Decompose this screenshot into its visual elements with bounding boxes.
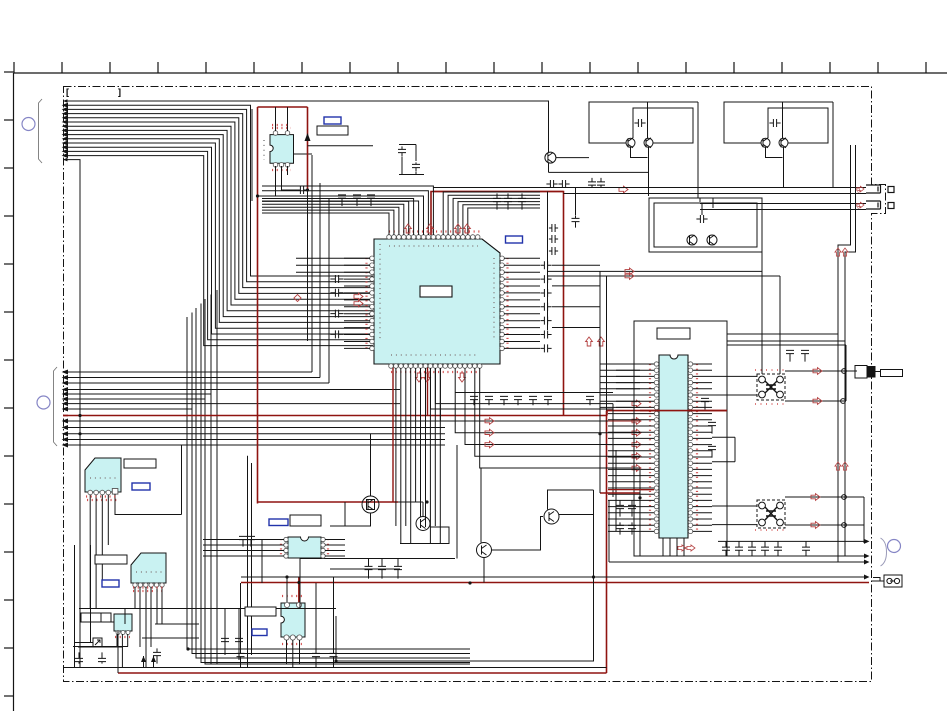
rows above QFP to red vertical (262, 185, 433, 187)
photo sensor box (93, 638, 102, 647)
transistor Q606 (707, 235, 717, 245)
transistor Q602 (644, 138, 653, 148)
transistor Q605 (687, 235, 697, 245)
vertical balun2 out (863, 497, 865, 543)
IC301 top pin wires going up-right (443, 192, 540, 235)
IC301 right pins (500, 256, 505, 351)
row balun2 out B (785, 524, 864, 526)
red up arrows x589 x601 (586, 337, 593, 346)
row above balun caps (727, 344, 846, 346)
wires Q202 emitter (400, 527, 449, 544)
red net vertical below QFP (392, 366, 394, 502)
transistor Q607 (545, 152, 556, 163)
long verticals right x838 x845 (838, 145, 851, 562)
IC501 part label box (657, 328, 690, 339)
IC501 right pins (688, 362, 692, 534)
black arrow up on x307 (305, 133, 311, 141)
diode marks bottom (141, 656, 156, 662)
ruler top (14, 72, 947, 74)
IC104 wires (116, 634, 118, 647)
QFP IC301 body (374, 239, 500, 364)
IC501 left stubs (608, 364, 654, 531)
IC701 top wires (286, 577, 288, 602)
bus fan last wire down left side (63, 160, 80, 668)
IC501 shield box (634, 321, 727, 556)
wire IC201 right vertical (307, 190, 309, 341)
IC202 labels (290, 515, 321, 526)
IC301 top pins (387, 235, 480, 240)
shield box TR2 inner (768, 108, 828, 143)
left input bus rows (63, 370, 445, 447)
IC501 body (659, 355, 688, 538)
caps hanging y568 (365, 558, 373, 578)
caps x552 x564 (546, 180, 557, 188)
verticals above left bus (311, 155, 313, 372)
red net row through IC501 (607, 410, 727, 412)
caps on IC202 left rows (239, 536, 247, 546)
red arrows above QFP (405, 224, 412, 233)
wire IC201 to arrow node (287, 166, 289, 175)
IC301 bottom pins (389, 364, 482, 369)
IC301 top pin wires up then left (262, 186, 433, 235)
caps column far right mid (616, 500, 624, 516)
IC102 pins (88, 490, 93, 495)
IC103 pin wires down (134, 587, 136, 609)
IC301 chamfer line (482, 239, 500, 253)
red net stub left bus (63, 415, 68, 417)
row pair y272 y276 verticals down (761, 252, 763, 374)
margin note circle A (22, 118, 35, 131)
brace C (881, 538, 887, 566)
vertical bus drop to bottom rail (187, 290, 470, 664)
svg-text:]: ] (118, 87, 121, 97)
capacitor TR3 (696, 215, 707, 223)
red net stub at IC701 (298, 577, 300, 603)
IC301 pin name text bands (389, 245, 478, 247)
IC103 pin speckle (133, 590, 164, 592)
caps row below IC501 (722, 541, 730, 556)
caps row under QFP (470, 396, 478, 405)
capacitors on IC301 right rows (540, 261, 551, 269)
IC201 bottom wires (258, 166, 276, 196)
vertical x547 decoupling column (547, 192, 549, 331)
shield box TR3 outer (649, 198, 762, 252)
IC301 right pin rows (504, 258, 540, 348)
shield box TR2 outer (724, 102, 833, 143)
wires Q203 to Q204 (492, 517, 543, 551)
wire sensor row (73, 646, 128, 648)
row above caps under QFP (455, 392, 613, 394)
IC301 pin number text bands (389, 230, 480, 232)
red net vertical main (257, 107, 259, 504)
IC202 pin speckle (280, 539, 282, 557)
caps below Q607 (588, 178, 596, 187)
IC501 bottom pin wires (662, 538, 664, 556)
red arrows at IC301 left (354, 293, 363, 300)
IC301 left pins (370, 256, 375, 351)
row balun2 out A (785, 496, 864, 498)
row from x307 right (308, 145, 374, 147)
IC201 value label box (317, 126, 348, 135)
wire Q201 down (330, 513, 371, 526)
caps inside red box bottom (312, 647, 320, 662)
long rows from IC301 right (552, 264, 600, 266)
wire Q204 right (559, 514, 594, 516)
shield box TR1 inner (633, 108, 693, 143)
verticals between TR boxes (697, 196, 699, 198)
red arrows on bottom bus rows right (632, 400, 641, 407)
red net row to driver (258, 501, 399, 503)
vertical x575 with cap (575, 188, 577, 216)
schematic border frame (64, 87, 886, 682)
red arrow row186 (619, 186, 628, 193)
transistor Q601 (626, 138, 635, 148)
region box around IC102 (181, 445, 183, 515)
capacitor in series IC201 (295, 186, 308, 194)
vertical x252 (251, 109, 253, 201)
bottom left verticals (74, 545, 76, 668)
brace B (54, 367, 58, 446)
blue label near QFP (506, 236, 523, 243)
connector CN602 plug (866, 201, 894, 209)
IC201 body (270, 135, 294, 164)
IC201 ref label box blue (324, 117, 341, 124)
capacitor TR1 (634, 119, 645, 127)
verticals into cluster (456, 445, 458, 559)
red arrows on bottom bus rows mid (485, 418, 494, 425)
IC202 body (288, 537, 321, 558)
bottom right long rows (718, 540, 866, 542)
red net bottom rail (118, 672, 607, 674)
IC501 pin speckle (649, 364, 651, 532)
IC701 bottom wires (286, 640, 288, 664)
rows y558 y569 (300, 558, 455, 560)
wire Q201 top (370, 434, 372, 496)
vertical x616 inside shield (615, 450, 617, 531)
capacitor TR2 (769, 119, 780, 127)
row pair to balun block (548, 270, 762, 272)
wire Q203 bottom (483, 558, 485, 583)
IC102 labels (124, 459, 156, 468)
red net QFP top loop (431, 192, 564, 416)
red double arrows x838 up (835, 248, 841, 256)
bus fan top-left wires to IC601 left pins (63, 103, 373, 345)
IC701 pin speckle (282, 595, 302, 597)
vertical x613 (612, 404, 614, 497)
red arrows near balun2 left (678, 545, 686, 551)
IC301 top pin wires going up-left (262, 199, 414, 236)
red net vertical x607 (606, 411, 608, 673)
transistor Q203 (477, 543, 492, 558)
IC103 pins (133, 583, 137, 587)
red net vertical right of IC201 (307, 107, 309, 190)
IC301 bottom pin buses to IC501 (431, 368, 641, 468)
connector CN601 plug (866, 185, 894, 193)
brace A (39, 99, 43, 163)
rows left bus to IC501 (600, 364, 640, 407)
IC104 label box (81, 613, 111, 622)
driver Q201 mosfet (362, 496, 379, 513)
black echo of red rail (336, 490, 594, 661)
capacitors hanging from row 201 (338, 195, 346, 206)
rows IC501 right to balun2 (712, 505, 757, 507)
transistor Q202 (416, 517, 430, 531)
red net vertical below QFP 2 (427, 366, 429, 416)
vertical to CN603 (845, 371, 847, 401)
verticals feeding bottom rows (639, 470, 641, 556)
red net jog (606, 411, 608, 416)
IC102 body (85, 458, 121, 492)
red arrows row pair (625, 268, 634, 275)
IC102 pin wires down (89, 495, 91, 609)
red stub rows IC501 left over (608, 489, 654, 491)
TR2 right vertical (832, 102, 834, 188)
rows from shield box top (727, 333, 838, 335)
row to QFP from upper-left (280, 153, 312, 155)
deep verticals from QFP bottom (396, 368, 440, 544)
IC701 label box redraw (245, 607, 276, 616)
IC103 body (131, 553, 166, 583)
IC501 left pins (654, 362, 658, 534)
IC701 body (281, 603, 305, 637)
bottom rail row1 (64, 667, 607, 669)
caps on x225 x239 (221, 634, 229, 645)
rows y202 y208 connector (700, 203, 866, 205)
svg-text:[: [ (66, 87, 69, 97)
bus fan top-left wire 1 (63, 101, 549, 153)
IC104 small body (114, 614, 132, 631)
row balun1 out B (785, 400, 846, 402)
red stub rows IC501 left (600, 492, 640, 494)
wire Q607 down row (548, 163, 550, 172)
IC202 left wires (203, 539, 284, 541)
IC301 part label box (420, 286, 452, 297)
shield box TR3 inner (654, 203, 757, 247)
IC701 labels (245, 607, 276, 616)
transistor Q204 (544, 509, 559, 524)
IC104 pin speckle (115, 636, 130, 638)
component above QFP (399, 144, 416, 146)
caps column to red rail (549, 224, 558, 232)
caps on IC501 right rows (708, 422, 716, 433)
verticals x600 x607 upper (599, 271, 601, 493)
caps right of QFP top (493, 193, 501, 209)
red net row y191 right (434, 191, 564, 193)
transistor Q603 (761, 138, 770, 148)
TR2 lower wires (766, 147, 783, 157)
ruler left (13, 73, 15, 711)
capacitors on IC301 left rows (330, 275, 343, 283)
connector CN603 mid right (855, 366, 903, 379)
IC201 pin speckle (272, 127, 291, 129)
row y186 to connector (433, 187, 866, 189)
IC202 right wires (325, 539, 345, 541)
row balun1 out A (785, 370, 857, 372)
IC701 pins (284, 602, 289, 607)
margin note circle C (888, 540, 901, 553)
TR1 lower wires (631, 147, 648, 157)
wire row Q202 (398, 501, 423, 503)
balun T501 (757, 374, 785, 400)
red net long bottom row (241, 582, 869, 584)
ground caps bottom left (75, 652, 83, 663)
wire Q203 top (480, 468, 482, 543)
row y577 long (241, 576, 594, 578)
red pin number speckle misc (272, 124, 290, 126)
IC103 labels (95, 555, 127, 564)
balun T502 (757, 500, 785, 528)
wire drop x251 (251, 463, 253, 655)
wire drop x247 (247, 456, 249, 668)
row y192 to connector (564, 193, 867, 195)
bottom mid rows (299, 559, 301, 609)
wire Q607 to TR1 (556, 157, 589, 159)
bottom rows left area (79, 608, 336, 610)
wire red net row (63, 415, 607, 417)
red net top jumper (258, 106, 308, 108)
red net row over IC501 body (640, 410, 727, 412)
wires Q204 top (548, 490, 594, 510)
IC201 pins (273, 131, 278, 136)
IC501 right stubs (693, 364, 712, 531)
IC202 pins (284, 537, 288, 541)
connector CN604 bottom right (871, 575, 902, 587)
rows IC501 right mid (712, 436, 735, 438)
IC201 top wires (275, 107, 277, 131)
rows IC501 right to balun1 (712, 375, 757, 377)
margin note circle B (37, 396, 50, 409)
TR1 right vertical (697, 102, 699, 196)
shield box TR1 outer (589, 102, 698, 143)
IC104 pins (116, 631, 120, 635)
IC301 left pin stubs (344, 258, 370, 348)
extra rows QFP upper left (296, 257, 370, 259)
red arrows below QFP (416, 373, 423, 382)
transistor Q604 (779, 138, 788, 148)
IC102 pin speckle (87, 499, 119, 501)
